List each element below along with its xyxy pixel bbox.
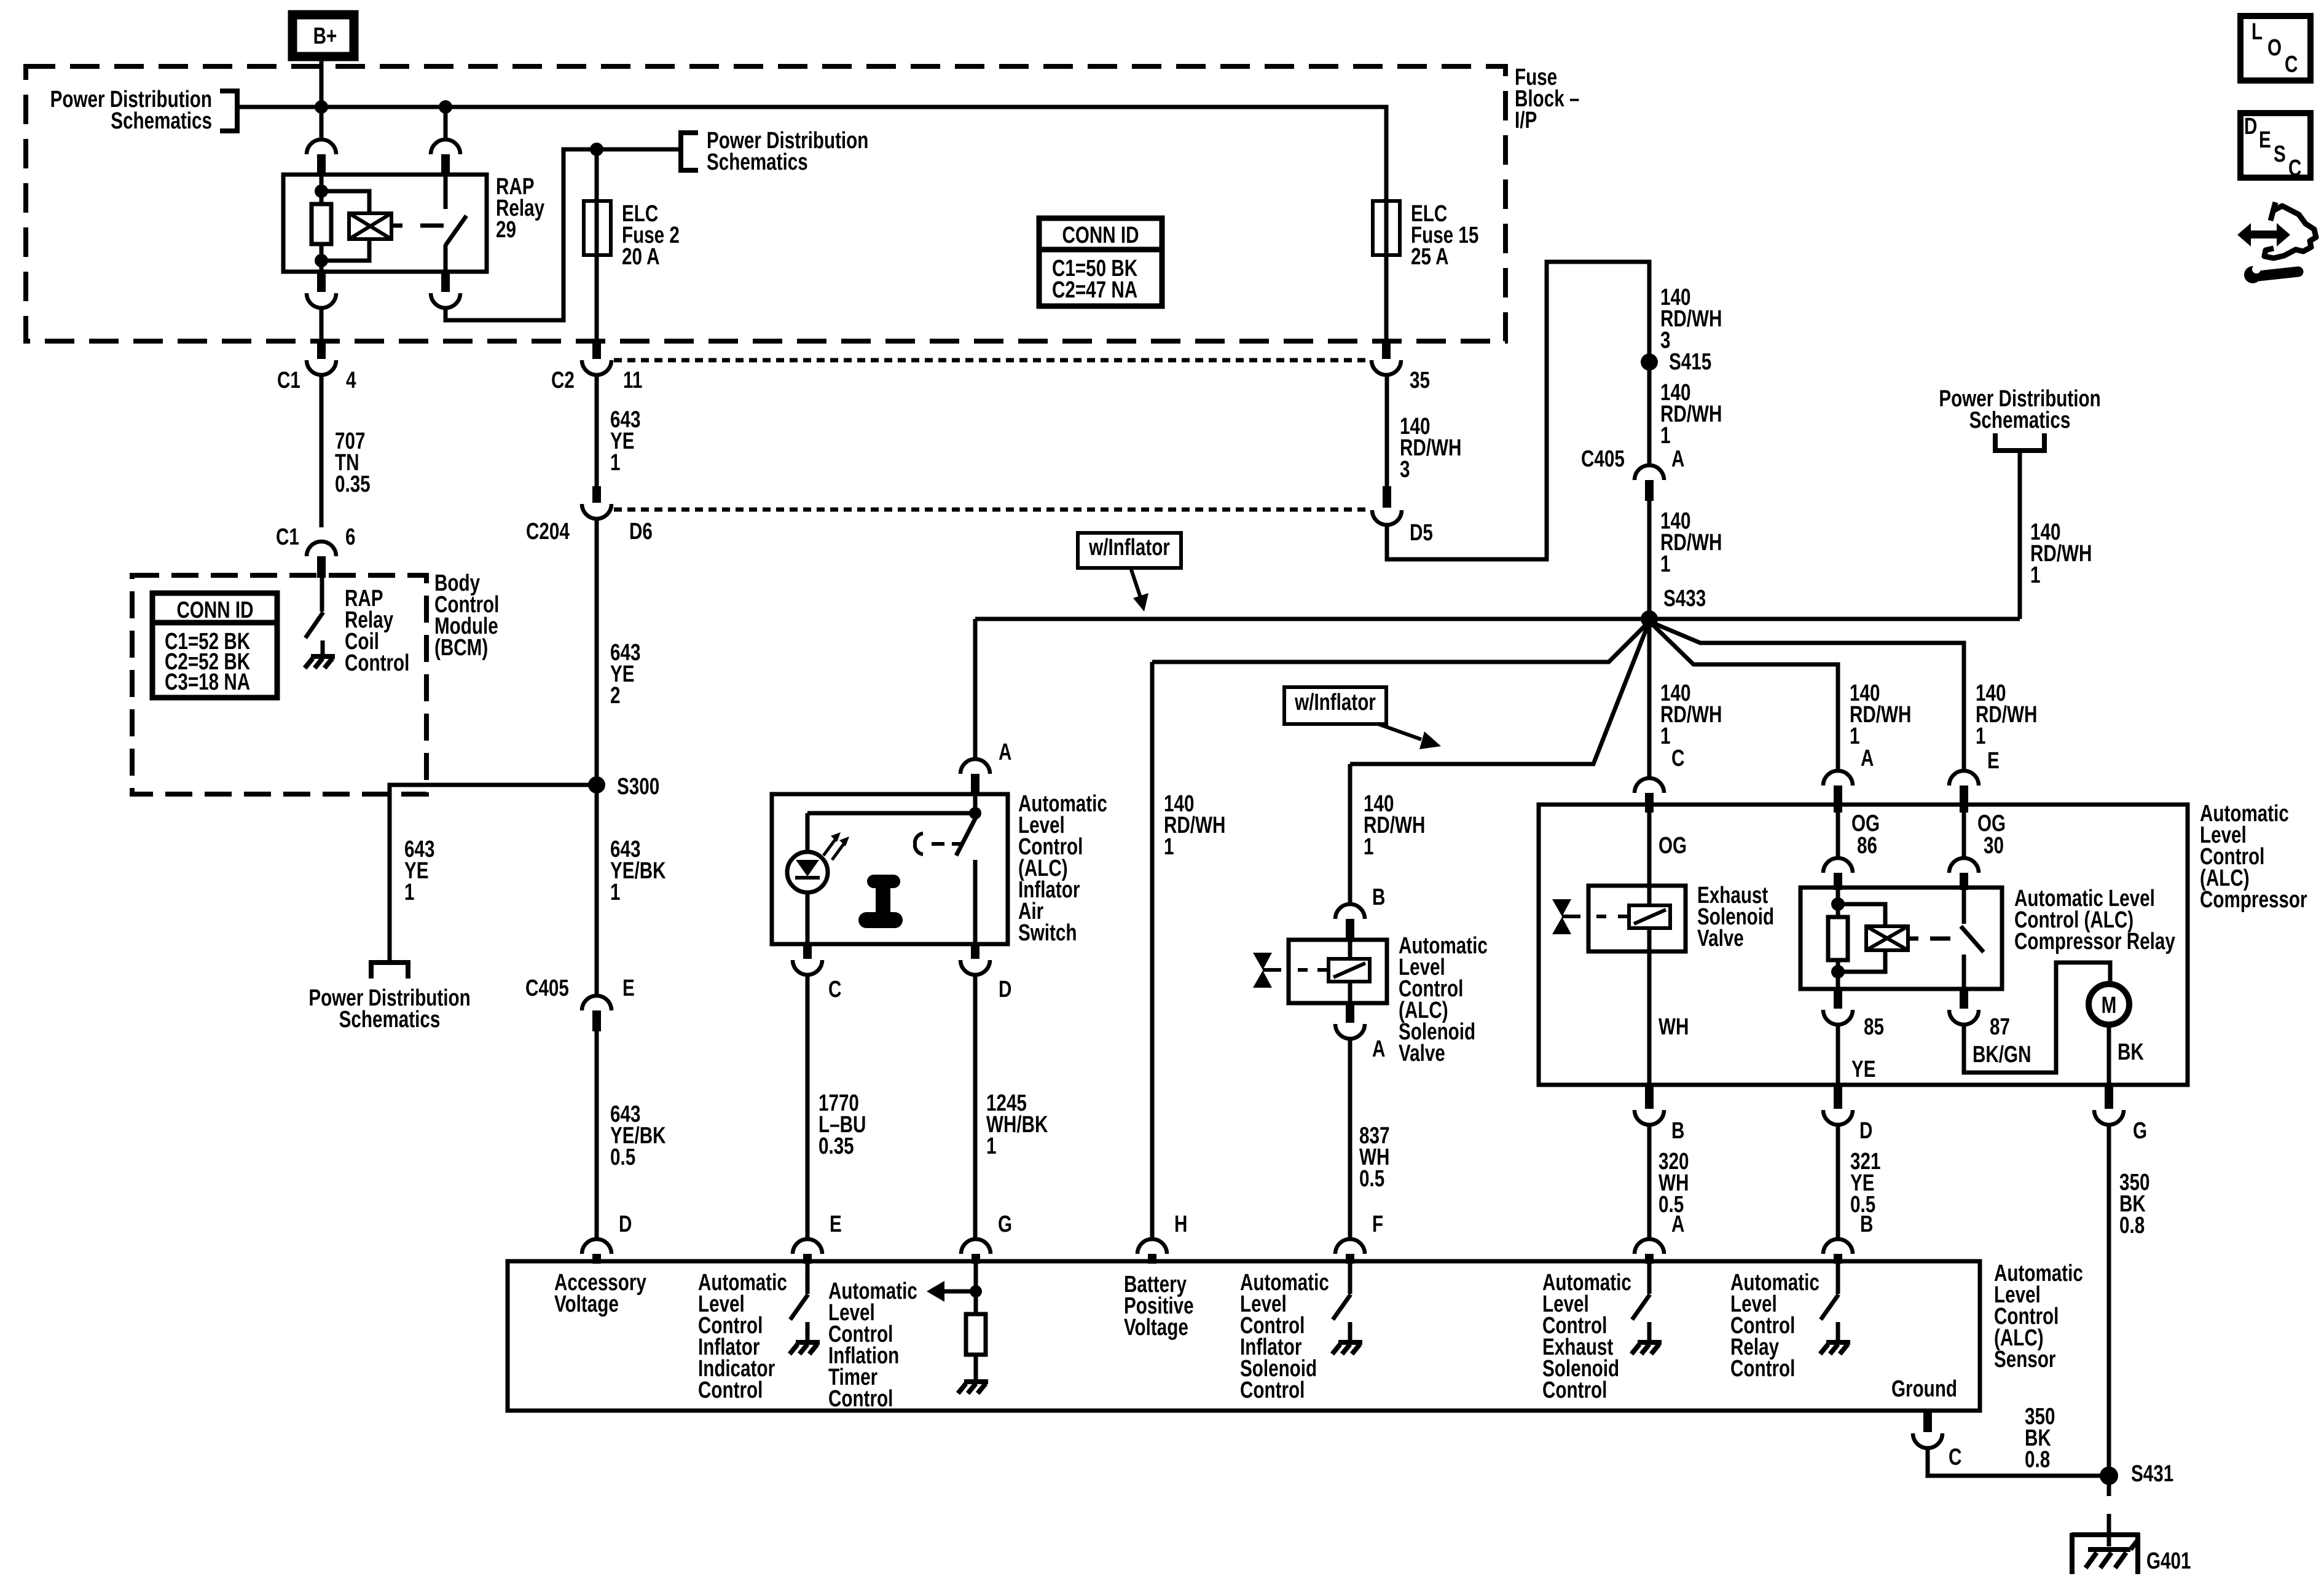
- ELC Fuse 2 wire: [595, 149, 599, 339]
- wire relay coil to C1-4: [320, 308, 324, 339]
- RAP relay coil wire and junctions: [320, 175, 324, 204]
- svg-text:D: D: [999, 977, 1011, 1002]
- svg-text:Switch: Switch: [1018, 920, 1077, 946]
- svg-text:0.8: 0.8: [2025, 1447, 2050, 1473]
- connector C2 pin 11: [592, 339, 601, 359]
- svg-text:Voltage: Voltage: [554, 1291, 619, 1317]
- air switch actuating dashes: [932, 842, 944, 846]
- ALC compressor relay box: [1800, 888, 2002, 989]
- sensor connector pin G: [961, 1239, 991, 1254]
- wire F column down to valve B: [1348, 764, 1352, 904]
- wire power distribution to S433 line: [2018, 451, 2022, 619]
- ground in BCM: [321, 640, 325, 656]
- relay 30 connector: [1949, 858, 1979, 873]
- relay 85 connector: [1834, 989, 1842, 1009]
- DESC reference box: [2240, 113, 2310, 178]
- relay resistor: [1828, 917, 1848, 960]
- svg-text:E: E: [622, 975, 635, 1001]
- connector A compressor relay feed: [1823, 771, 1853, 786]
- RAP relay top connector switch side: [431, 140, 460, 154]
- wire C405 A to S433: [1647, 501, 1652, 619]
- splice S300: [588, 776, 605, 793]
- ALC solenoid valve coil: [1329, 959, 1370, 982]
- svg-text:Control: Control: [1240, 1377, 1305, 1403]
- connector B solenoid valve: [1335, 904, 1365, 919]
- svg-text:S415: S415: [1669, 349, 1711, 375]
- connector D below air switch: [971, 944, 979, 959]
- wire S431 down: [2107, 1476, 2111, 1496]
- sensor ground pin C: [1923, 1412, 1932, 1432]
- svg-text:C2: C2: [551, 368, 575, 393]
- connector C1 pin 4: [317, 339, 326, 359]
- svg-text:1: 1: [986, 1133, 996, 1159]
- svg-text:25 A: 25 A: [1411, 244, 1448, 270]
- svg-text:86: 86: [1857, 833, 1877, 859]
- svg-text:B: B: [1372, 884, 1385, 910]
- svg-text:C: C: [2288, 156, 2301, 181]
- svg-text:Control: Control: [1730, 1356, 1795, 1382]
- wire 30 into relay connector: [1962, 813, 1966, 858]
- svg-text:S431: S431: [2131, 1461, 2173, 1487]
- wire 643 YE/BK 0.5: [595, 1031, 599, 1239]
- svg-text:Valve: Valve: [1697, 926, 1744, 951]
- RAP relay bottom connector switch side: [441, 272, 450, 292]
- svg-text:E: E: [2259, 127, 2271, 153]
- junction node on bus at relay switch column: [439, 100, 452, 114]
- compressor motor: [2089, 984, 2129, 1025]
- air switch pump symbol: [874, 875, 893, 888]
- air switch contact curl: [915, 833, 923, 854]
- svg-text:B: B: [1860, 1211, 1873, 1237]
- svg-text:A: A: [1671, 1211, 1684, 1237]
- svg-text:1: 1: [1660, 723, 1670, 749]
- svg-text:20 A: 20 A: [622, 244, 659, 270]
- svg-text:1: 1: [1660, 551, 1670, 577]
- junction node at fuse2 top: [590, 143, 603, 156]
- connector C compressor: [1635, 778, 1664, 793]
- relay 86 connector: [1823, 858, 1853, 873]
- svg-text:O: O: [2267, 35, 2282, 61]
- wire 837 WH down to F: [1348, 1039, 1352, 1239]
- CONN ID table BCM: [152, 593, 277, 698]
- BCM dashed box: [132, 575, 426, 794]
- svg-text:CONN ID: CONN ID: [1062, 222, 1139, 248]
- svg-text:11: 11: [623, 368, 642, 393]
- svg-text:w/Inflator: w/Inflator: [1294, 690, 1376, 715]
- RAP relay resistor: [312, 204, 331, 244]
- svg-text:A: A: [1671, 446, 1684, 472]
- wire 87 BK/GN to motor: [1964, 963, 2110, 1073]
- svg-text:A: A: [999, 739, 1011, 765]
- svg-text:E: E: [830, 1211, 842, 1237]
- svg-text:C1: C1: [276, 524, 299, 550]
- svg-text:0.5: 0.5: [610, 1144, 635, 1170]
- S433 branch to relay 30 column: [1649, 621, 1964, 771]
- timer control arrow and resistor G pin: [974, 1264, 978, 1379]
- splice S415: [1641, 353, 1658, 371]
- svg-text:C: C: [1671, 746, 1684, 771]
- svg-text:I/P: I/P: [1515, 108, 1537, 133]
- svg-text:Compressor Relay: Compressor Relay: [2014, 929, 2175, 955]
- svg-text:1: 1: [404, 880, 414, 905]
- connector A solenoid valve: [1346, 1003, 1354, 1023]
- svg-text:BK: BK: [2118, 1039, 2144, 1065]
- sensor connector pin A: [1635, 1239, 1664, 1254]
- dotted connector line C2 to 35: [614, 358, 1369, 363]
- wire relay switch output to power distribution bracket: [446, 149, 679, 320]
- switch B relay control: [1836, 1264, 1840, 1294]
- RAP relay top connector coil side: [307, 140, 336, 154]
- wire 321 YE: [1836, 1125, 1840, 1239]
- battery feed B+ symbol: [292, 15, 354, 57]
- connector C204 pin D6: [592, 486, 601, 503]
- service icon arrow: [2237, 223, 2290, 246]
- LOC reference box: [2240, 16, 2310, 81]
- svg-text:D: D: [2244, 114, 2257, 140]
- svg-text:0.5: 0.5: [1359, 1166, 1384, 1192]
- wire S300 branch to power distribution: [390, 785, 597, 961]
- svg-text:Schematics: Schematics: [1969, 408, 2071, 433]
- wire ground C to S431: [1928, 1448, 2109, 1476]
- svg-text:C: C: [828, 977, 841, 1002]
- sensor connector pin B: [1823, 1239, 1853, 1254]
- svg-text:30: 30: [1984, 833, 2004, 859]
- wire S433 line down to air switch A: [973, 619, 978, 759]
- svg-text:YE: YE: [1851, 1057, 1876, 1082]
- relay coil loop: [1838, 904, 1885, 926]
- relay coil wire and junctions: [1836, 890, 1840, 917]
- fuse block I/P dashed box: [26, 66, 1505, 341]
- wire motor to G: [2107, 1023, 2111, 1085]
- svg-text:1: 1: [1364, 834, 1373, 860]
- wire 1245 WH/BK: [973, 975, 978, 1239]
- ALC solenoid valve box: [1289, 940, 1387, 1003]
- wire S415 to C405 A: [1647, 362, 1652, 465]
- svg-text:35: 35: [1410, 368, 1430, 393]
- svg-text:Control: Control: [1542, 1377, 1607, 1403]
- wire WH exhaust column: [1647, 951, 1652, 1085]
- svg-text:w/Inflator: w/Inflator: [1088, 535, 1170, 561]
- svg-text:B: B: [1671, 1118, 1684, 1144]
- svg-text:A: A: [1372, 1036, 1385, 1062]
- RAP relay actuating dash: [420, 224, 444, 228]
- power distribution bracket 2: [681, 133, 698, 170]
- svg-text:A: A: [1861, 746, 1874, 771]
- S433 branch down to compressor C: [1647, 619, 1652, 778]
- sensor connector pin D: [582, 1239, 611, 1254]
- relay 87 connector: [1960, 989, 1968, 1009]
- S433 branch to F column: [1350, 621, 1649, 764]
- wire relay switch leg from bus: [444, 107, 448, 140]
- dotted connector line C204 to D5: [614, 508, 1370, 512]
- svg-text:87: 87: [1990, 1014, 2010, 1040]
- LED light arrows: [823, 837, 837, 856]
- svg-text:S300: S300: [617, 774, 659, 800]
- air switch lower contact: [973, 860, 978, 944]
- svg-text:Schematics: Schematics: [707, 149, 808, 175]
- RAP relay switch contact and blade: [444, 175, 448, 209]
- svg-text:Control: Control: [345, 650, 409, 676]
- svg-text:D6: D6: [629, 519, 653, 545]
- power distribution bracket bottom-left: [371, 963, 408, 979]
- relay actuating dash: [1930, 937, 1950, 941]
- svg-text:6: 6: [345, 524, 355, 550]
- svg-text:G: G: [2133, 1118, 2147, 1144]
- svg-text:Ground: Ground: [1891, 1376, 1957, 1402]
- splice S431: [2100, 1467, 2118, 1485]
- svg-text:Schematics: Schematics: [111, 108, 212, 134]
- svg-text:0.8: 0.8: [2119, 1213, 2145, 1238]
- svg-text:OG: OG: [1659, 833, 1687, 859]
- svg-text:(BCM): (BCM): [434, 635, 488, 661]
- svg-text:G: G: [998, 1211, 1012, 1237]
- svg-text:0.35: 0.35: [819, 1133, 854, 1159]
- wire 86 into relay connector: [1836, 813, 1840, 858]
- wire 1770 L-BU: [806, 975, 810, 1239]
- power distribution bracket right: [1995, 433, 2044, 451]
- svg-text:B+: B+: [313, 23, 337, 49]
- main horizontal wire through S433: [975, 617, 2020, 621]
- svg-text:1: 1: [1660, 423, 1670, 449]
- service icon car outline: [2264, 202, 2316, 258]
- svg-text:1: 1: [2030, 562, 2040, 588]
- sensor connector pin E: [793, 1239, 822, 1254]
- wire H column down: [1150, 662, 1155, 1239]
- svg-text:S433: S433: [1663, 586, 1706, 612]
- switch A exhaust solenoid: [1647, 1264, 1652, 1294]
- svg-text:29: 29: [496, 217, 516, 243]
- S433 branch to H column: [1152, 621, 1649, 662]
- svg-text:Compressor: Compressor: [2200, 887, 2307, 913]
- connector 35 at fuse block: [1382, 339, 1391, 359]
- svg-text:BK/GN: BK/GN: [1973, 1042, 2031, 1068]
- wire 350 BK: [2107, 1125, 2111, 1475]
- svg-text:1: 1: [610, 450, 620, 476]
- connector A air switch: [960, 759, 990, 774]
- CONN ID table fuse block: [1039, 218, 1162, 306]
- connector C below air switch: [803, 944, 812, 959]
- wire B+ down to C1-4: [320, 58, 324, 140]
- relay coil element: [1866, 926, 1908, 950]
- wire 85 to compressor box bottom: [1836, 1025, 1840, 1085]
- exhaust solenoid valve coil: [1629, 905, 1670, 928]
- svg-text:Sensor: Sensor: [1994, 1347, 2055, 1372]
- svg-text:Schematics: Schematics: [339, 1007, 441, 1033]
- ALC sensor box: [508, 1261, 1980, 1411]
- wire 643 YE 1: [595, 375, 599, 486]
- RAP relay coil loop wires: [321, 191, 369, 213]
- switch F inflator solenoid: [1348, 1264, 1352, 1294]
- svg-text:D: D: [619, 1211, 632, 1237]
- svg-text:C1: C1: [277, 368, 300, 393]
- svg-text:C204: C204: [526, 519, 570, 545]
- svg-text:E: E: [1987, 748, 2000, 774]
- connector D5: [1383, 486, 1391, 508]
- air switch blade: [956, 817, 976, 856]
- svg-text:2: 2: [610, 683, 620, 709]
- svg-text:H: H: [1174, 1211, 1187, 1237]
- svg-text:Valve: Valve: [1399, 1041, 1445, 1066]
- S433 branch to relay 86 column: [1649, 621, 1838, 771]
- svg-text:D: D: [1859, 1118, 1872, 1144]
- svg-text:1: 1: [1850, 723, 1859, 749]
- svg-text:CONN ID: CONN ID: [176, 597, 253, 623]
- RAP relay 29 box: [283, 175, 487, 272]
- exhaust valve pneumatic symbol: [1552, 899, 1571, 916]
- ALC inflator air switch box: [772, 794, 1008, 944]
- wire 707 TN: [320, 375, 324, 527]
- svg-text:1: 1: [1164, 834, 1174, 860]
- relay switch contact and blade: [1962, 890, 1966, 924]
- RAP relay bottom connector coil side: [317, 272, 326, 292]
- w/Inflator callout 2: [1284, 687, 1386, 724]
- LED indicator: [806, 813, 810, 852]
- ALC valve pneumatic symbol: [1253, 953, 1272, 970]
- ALC compressor box: [1539, 805, 2188, 1085]
- svg-text:C405: C405: [1581, 446, 1625, 472]
- svg-text:4: 4: [346, 368, 356, 393]
- connector G compressor bottom: [2105, 1085, 2113, 1109]
- svg-text:1: 1: [1976, 723, 1985, 749]
- ELC Fuse 15 symbol: [1373, 201, 1400, 255]
- wire OG exhaust column: [1647, 813, 1652, 886]
- RAP relay coil element: [349, 213, 391, 239]
- switch E inflator indicator: [806, 1264, 810, 1294]
- svg-text:C405: C405: [525, 975, 569, 1001]
- RAP relay coil control switch: [320, 578, 324, 612]
- power distribution bracket top-left: [220, 91, 237, 131]
- svg-text:C: C: [1949, 1444, 1961, 1470]
- svg-text:Voltage: Voltage: [1124, 1315, 1188, 1341]
- ELC Fuse 2 symbol: [584, 201, 611, 255]
- svg-text:0.35: 0.35: [335, 471, 371, 497]
- wire 320 WH: [1647, 1125, 1652, 1239]
- svg-text:Control: Control: [828, 1386, 893, 1412]
- wire D5 to S415 column: [1387, 262, 1649, 559]
- air switch internal top wire: [973, 794, 978, 813]
- svg-text:G401: G401: [2146, 1548, 2191, 1574]
- svg-text:Control: Control: [698, 1377, 763, 1403]
- sensor connector pin F: [1335, 1239, 1365, 1254]
- svg-text:1: 1: [610, 880, 620, 905]
- ground G401: [2071, 1532, 2140, 1537]
- svg-text:S: S: [2274, 141, 2286, 167]
- svg-text:F: F: [1372, 1211, 1383, 1237]
- svg-text:D5: D5: [1410, 520, 1433, 546]
- exhaust solenoid valve box: [1588, 886, 1686, 951]
- svg-text:3: 3: [1400, 457, 1410, 482]
- svg-text:C2=47 NA: C2=47 NA: [1052, 277, 1137, 303]
- junction node on bus at B+ column: [315, 100, 328, 114]
- splice S433: [1641, 610, 1658, 628]
- connector B compressor bottom: [1645, 1085, 1654, 1109]
- wire 643 YE 2: [595, 519, 599, 996]
- svg-text:C: C: [2285, 52, 2298, 77]
- sensor connector pin H: [1137, 1239, 1167, 1254]
- connector D compressor bottom: [1834, 1085, 1842, 1109]
- w/Inflator callout 1: [1078, 533, 1181, 568]
- svg-text:L: L: [2251, 19, 2263, 45]
- svg-text:M: M: [2102, 993, 2117, 1018]
- svg-text:WH: WH: [1659, 1014, 1689, 1040]
- wire 140 RD/WH 3 between 35 and D5: [1385, 375, 1389, 486]
- connector E compressor relay feed: [1949, 771, 1979, 786]
- service icon wrench: [2244, 266, 2261, 283]
- svg-text:C3=18 NA: C3=18 NA: [165, 669, 250, 695]
- bus wire from bracket to fuse15 column: [237, 107, 1386, 203]
- svg-text:85: 85: [1864, 1014, 1884, 1040]
